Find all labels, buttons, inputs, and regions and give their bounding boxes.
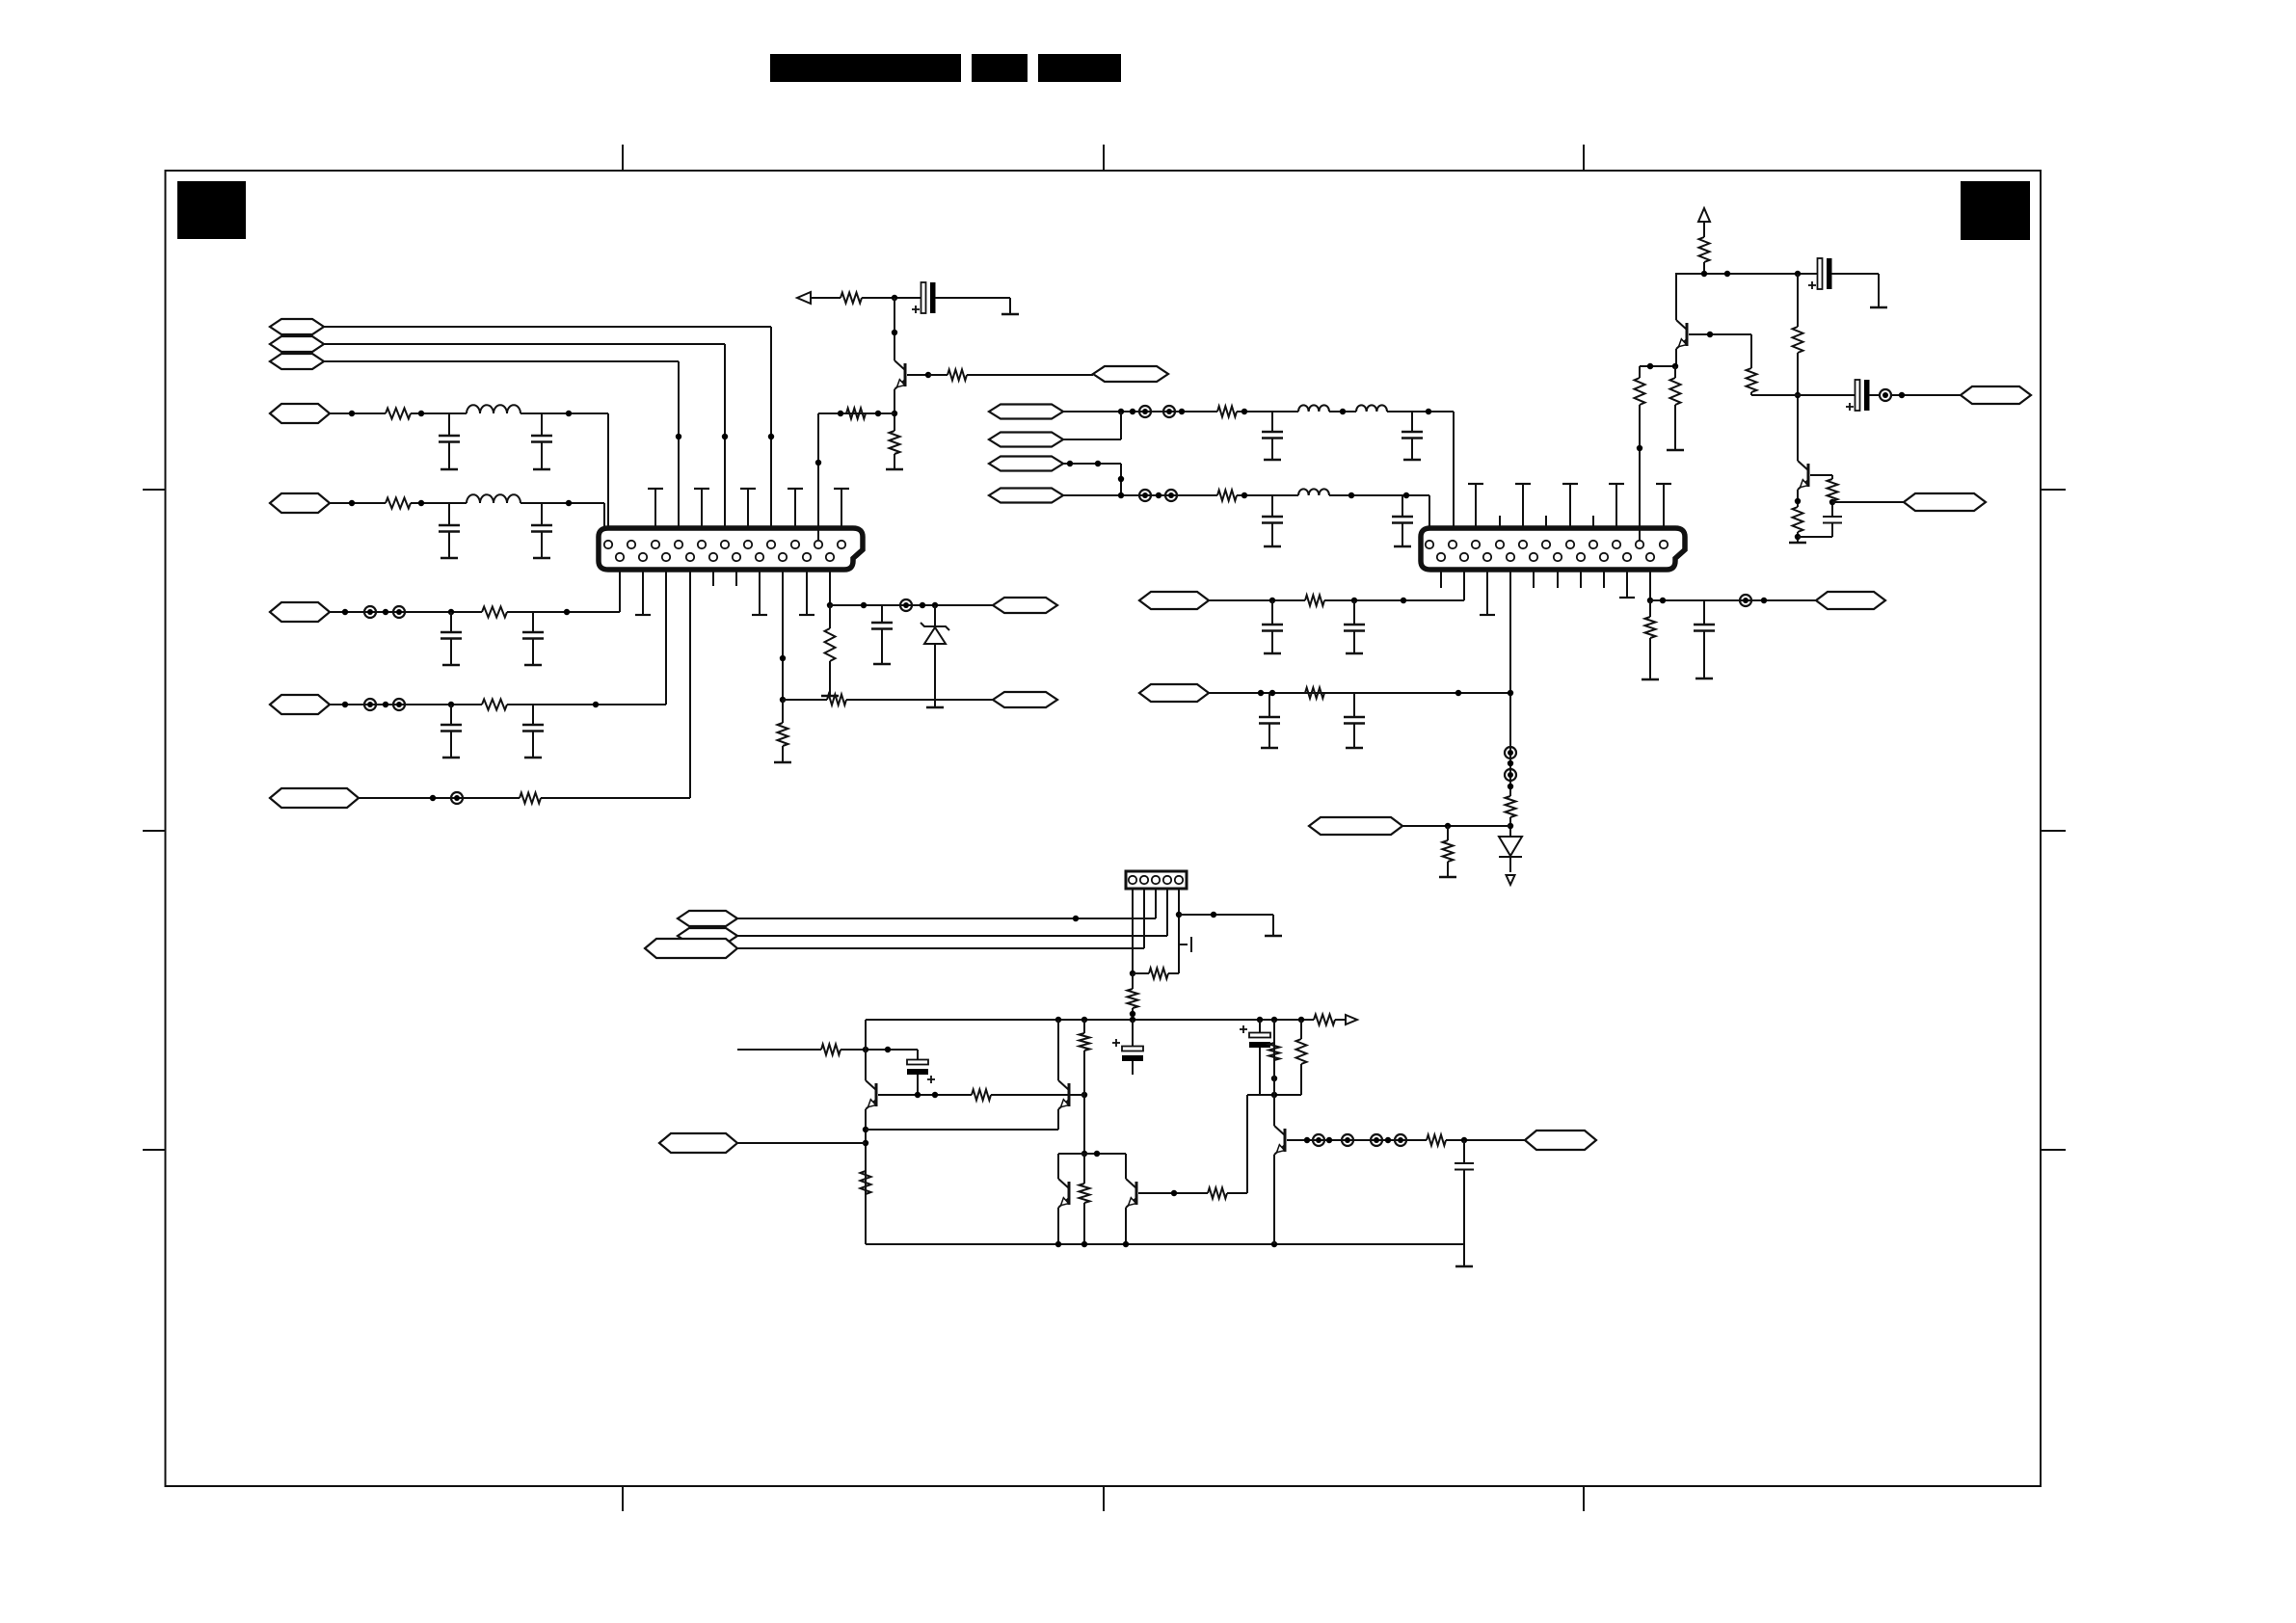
- arrow: [1346, 1015, 1357, 1024]
- stub: [1619, 570, 1635, 598]
- capacitor stub: [1468, 484, 1483, 528]
- capacitor C9: [871, 605, 893, 664]
- stub: [635, 570, 651, 615]
- wire: [1329, 492, 1429, 498]
- wire: [603, 503, 605, 531]
- ferrite bead FB7: [1139, 406, 1151, 417]
- wire: [811, 297, 841, 299]
- capacitor C22: [1823, 517, 1842, 537]
- net flag OUT2: [1961, 386, 2031, 404]
- capacitor C7: [441, 705, 462, 758]
- wire: [991, 1092, 1087, 1098]
- transistor Q6: [1058, 1179, 1069, 1208]
- wire: [1273, 1020, 1275, 1126]
- wire: [1138, 1190, 1208, 1196]
- resistor R22: [1635, 366, 1645, 405]
- net flag RF7: [1309, 817, 1402, 835]
- resistor R18: [1439, 826, 1456, 877]
- resistor R12: [948, 370, 967, 381]
- stub: [1580, 570, 1582, 588]
- wire: [928, 374, 1093, 376]
- wire: [1237, 409, 1298, 414]
- ferrite bead FB12: [1505, 769, 1516, 781]
- transistor Q4: [866, 1080, 876, 1109]
- wire: [1446, 1137, 1525, 1143]
- ferrite bead FB11: [1505, 747, 1516, 758]
- wire: [1166, 889, 1168, 936]
- wire: [1179, 912, 1273, 918]
- wire: [737, 935, 1167, 937]
- stub: [1592, 516, 1594, 528]
- wire: [1640, 363, 1678, 369]
- ferrite bead FB10: [1165, 490, 1177, 501]
- capacitor stub: [694, 489, 709, 528]
- wire: [1402, 823, 1510, 829]
- wire: [1453, 412, 1455, 540]
- capacitor C19: [1694, 600, 1715, 678]
- wire: [841, 1047, 918, 1052]
- wire: [1071, 1094, 1084, 1096]
- transistor Q2: [1676, 320, 1687, 349]
- connector J1: [599, 528, 863, 570]
- net flag BF1: [678, 911, 737, 926]
- wire: [1273, 1155, 1275, 1244]
- wire: [737, 947, 1144, 949]
- wire: [1155, 889, 1157, 918]
- stub: [1440, 570, 1442, 588]
- wire: [1176, 889, 1182, 973]
- wire: [1795, 353, 1801, 461]
- wire: [1689, 332, 1751, 337]
- wire: [689, 570, 691, 798]
- wire: [1130, 889, 1135, 976]
- wire: [507, 702, 666, 707]
- wire: [1751, 394, 1855, 396]
- wire: [1463, 570, 1465, 600]
- resistor R10: [886, 431, 903, 469]
- resistor R7: [774, 700, 791, 762]
- capacitor C6: [522, 612, 544, 665]
- capacitor C17: [1259, 693, 1280, 748]
- capacitor C4: [531, 503, 552, 558]
- capacitor C8: [522, 705, 544, 758]
- resistor R15: [1305, 596, 1324, 606]
- wire: [1795, 490, 1801, 507]
- net flag OUT_A: [993, 692, 1057, 707]
- inductor L2: [467, 494, 521, 503]
- polarized capacitor C26: [907, 1050, 935, 1095]
- stub: [1603, 570, 1605, 588]
- resistor R2: [386, 498, 411, 509]
- wire: [1081, 1051, 1087, 1157]
- wire: [1508, 570, 1513, 796]
- resistor R30: [1296, 1020, 1307, 1095]
- wire: [827, 570, 833, 608]
- wire: [1209, 598, 1305, 603]
- capacitor stub: [1656, 484, 1671, 528]
- resistor R8: [821, 605, 839, 696]
- ferrite bead FB4: [393, 699, 405, 710]
- wire: [722, 344, 728, 540]
- wire: [330, 500, 386, 506]
- resistor R20: [1699, 237, 1710, 262]
- resistor R5: [520, 793, 541, 804]
- stub: [1499, 516, 1501, 528]
- ferrite bead FB1: [364, 606, 376, 618]
- ferrite bead FB13: [1740, 595, 1751, 606]
- wire: [1125, 1208, 1127, 1244]
- wire: [521, 500, 604, 506]
- capacitor C13: [1262, 495, 1283, 546]
- net flag OUT_B: [993, 598, 1057, 613]
- wire: [1083, 1020, 1085, 1033]
- capacitor C18: [1344, 693, 1365, 748]
- wire: [1063, 409, 1217, 414]
- transistor Q3: [1798, 461, 1808, 490]
- transistor Q8: [1274, 1126, 1285, 1155]
- capacitor stub: [740, 489, 756, 528]
- wire: [1058, 1151, 1126, 1157]
- stub: [1480, 570, 1495, 615]
- wire: [737, 916, 1156, 921]
- net flag ROW1: [270, 404, 330, 423]
- capacitor stub: [1562, 484, 1578, 528]
- resistor R25: [1793, 507, 1803, 532]
- net flag OUT4: [1525, 1131, 1596, 1150]
- stub: [1533, 570, 1535, 588]
- ferrite bead FB6: [900, 599, 912, 611]
- wire: [862, 295, 921, 301]
- wire: [1287, 1137, 1427, 1143]
- wire: [607, 413, 609, 540]
- ferrite bead FB17: [1371, 1134, 1382, 1146]
- resistor R27: [1133, 969, 1179, 979]
- wire: [935, 297, 1010, 299]
- wire: [1063, 492, 1217, 498]
- resistor R13: [1217, 407, 1237, 417]
- resistor R11: [846, 409, 866, 419]
- capacitor C23: [1179, 937, 1191, 952]
- stub: [1557, 570, 1559, 588]
- wire: [768, 327, 774, 540]
- polarized capacitor C21: [1846, 380, 1870, 411]
- net flag IN3: [270, 354, 324, 369]
- capacitor stub: [648, 489, 663, 528]
- ground: [1001, 298, 1019, 314]
- wire: [1832, 501, 1904, 503]
- polarized capacitor C25: [1240, 1020, 1270, 1095]
- net flag OUT1: [1093, 366, 1168, 382]
- resistor R36: [1080, 1154, 1090, 1244]
- wire: [1335, 1019, 1346, 1021]
- wire: [1810, 475, 1832, 479]
- wire: [846, 699, 993, 701]
- wire: [541, 797, 690, 799]
- wire: [1057, 1208, 1059, 1244]
- wire: [1324, 598, 1464, 603]
- resistor R31: [1269, 1020, 1280, 1060]
- resistor R6: [827, 695, 846, 705]
- net flag RF1: [989, 405, 1063, 419]
- stub: [1545, 516, 1547, 528]
- capacitor stub: [834, 489, 849, 528]
- net flag RF2: [989, 433, 1063, 447]
- net flag RF8: [1816, 592, 1885, 609]
- net flag BF2: [678, 928, 737, 944]
- wire: [1750, 334, 1752, 368]
- connector J2: [1421, 528, 1685, 570]
- net flag ROW3: [270, 602, 330, 622]
- capacitor C2: [531, 413, 552, 469]
- ground: [1265, 915, 1282, 936]
- ferrite bead FB8: [1163, 406, 1175, 417]
- stub: [712, 570, 714, 586]
- wire: [1057, 1020, 1059, 1080]
- resistor R1: [386, 409, 411, 419]
- resistor R35: [1080, 1033, 1090, 1051]
- ground: [1789, 542, 1806, 544]
- ferrite bead FB3: [364, 699, 376, 710]
- resistor R29: [1314, 1015, 1335, 1025]
- wire: [783, 699, 827, 701]
- inductor L1: [467, 405, 521, 413]
- wire: [892, 389, 897, 431]
- net flag IN1: [270, 319, 324, 334]
- wire: [1829, 499, 1835, 517]
- wire: [1063, 412, 1121, 439]
- net flag ROW4: [270, 695, 330, 714]
- wire: [324, 360, 679, 362]
- wire: [1869, 392, 1961, 398]
- transistor Q1: [894, 360, 905, 389]
- wire: [507, 609, 620, 615]
- transistor Q5: [1058, 1080, 1069, 1109]
- power arrow: [1698, 208, 1710, 222]
- wire: [1703, 222, 1705, 237]
- inductor L5: [1298, 489, 1329, 495]
- ferrite bead FB5: [451, 792, 463, 804]
- capacitor stub: [1609, 484, 1624, 528]
- wire: [830, 602, 993, 608]
- wire: [1675, 274, 1677, 320]
- wire: [1798, 536, 1832, 538]
- net flag ROW2: [270, 493, 330, 513]
- ferrite bead FB9: [1139, 490, 1151, 501]
- wire: [665, 570, 667, 705]
- wire: [359, 795, 520, 801]
- net flag OUT3: [1904, 493, 1986, 511]
- resistor R32: [821, 1045, 841, 1055]
- transistor Q7: [1126, 1179, 1136, 1208]
- capacitor stub: [788, 489, 803, 528]
- net flag ROW5: [270, 788, 359, 808]
- wire: [1428, 495, 1430, 540]
- wire: [1797, 274, 1799, 327]
- ground: [1870, 274, 1887, 307]
- wire: [1795, 532, 1801, 542]
- resistor R38: [1427, 1135, 1446, 1146]
- resistor R16: [1305, 688, 1324, 699]
- wire: [1675, 349, 1677, 366]
- wire: [1703, 262, 1705, 274]
- wire: [1057, 1154, 1059, 1179]
- net flag RF3: [989, 457, 1063, 471]
- capacitor stub: [1515, 484, 1531, 528]
- wire: [863, 1109, 868, 1244]
- zener diode D1: [921, 605, 949, 707]
- wire: [676, 361, 681, 540]
- wire: [1237, 492, 1298, 498]
- resistor R3: [482, 607, 507, 618]
- wire: [324, 343, 725, 345]
- net flag RF4: [989, 489, 1063, 503]
- polarized capacitor C24: [1112, 1020, 1143, 1075]
- inductor L3: [1298, 405, 1329, 412]
- inductor L4: [1356, 405, 1387, 412]
- wire: [619, 570, 621, 612]
- resistor R23: [1667, 366, 1684, 450]
- wire: [1063, 461, 1121, 466]
- wire: [865, 1020, 867, 1080]
- wire: [1750, 392, 1752, 395]
- arrow: [1507, 875, 1515, 885]
- wire: [1271, 1060, 1277, 1126]
- ferrite bead FB16: [1342, 1134, 1353, 1146]
- wire: [1650, 598, 1816, 603]
- resistor R34: [972, 1090, 991, 1101]
- wire: [1057, 1109, 1059, 1130]
- wire: [866, 1129, 1058, 1131]
- net arrow: [797, 292, 811, 304]
- wire: [330, 609, 482, 615]
- wire: [1508, 817, 1513, 837]
- ferrite bead FB14: [1880, 389, 1891, 401]
- wire: [1637, 405, 1642, 540]
- capacitor C1: [439, 413, 460, 469]
- wire: [1143, 889, 1145, 948]
- wire: [1675, 271, 1818, 277]
- diode D2: [1499, 837, 1522, 872]
- wire: [1247, 1092, 1301, 1098]
- wire: [1329, 409, 1356, 414]
- wire: [330, 411, 386, 416]
- capacitor C5: [441, 612, 462, 665]
- wire: [1209, 690, 1510, 696]
- resistor R4: [482, 700, 507, 710]
- connector J3: [1126, 871, 1187, 889]
- wire: [411, 411, 467, 416]
- resistor R21: [1747, 368, 1757, 392]
- resistor R37: [1208, 1188, 1227, 1199]
- net flag BF4: [659, 1133, 737, 1153]
- wire: [1387, 409, 1454, 414]
- ground: [1455, 1244, 1473, 1266]
- wire: [1647, 570, 1653, 603]
- wire: [1125, 1154, 1127, 1179]
- rail wire: [866, 1241, 1464, 1247]
- stub: [799, 570, 814, 615]
- resistor R17: [1506, 796, 1516, 817]
- wire: [780, 570, 786, 703]
- resistor R14: [1217, 491, 1237, 501]
- wire: [1118, 464, 1124, 495]
- capacitor C15: [1262, 600, 1283, 653]
- wire: [324, 326, 771, 328]
- capacitor C16: [1344, 600, 1365, 653]
- wire: [907, 372, 931, 378]
- wire: [330, 702, 482, 707]
- net flag RF5: [1139, 592, 1209, 609]
- ferrite bead FB15: [1313, 1134, 1324, 1146]
- stub: [752, 570, 767, 615]
- wire: [737, 1142, 866, 1144]
- capacitor C12: [1402, 412, 1423, 460]
- resistor R33: [861, 1171, 871, 1194]
- wire: [866, 1017, 1314, 1023]
- capacitor C11: [1262, 412, 1283, 460]
- wire: [737, 1049, 821, 1051]
- stub: [735, 570, 737, 586]
- net flag IN2: [270, 336, 324, 352]
- wire: [878, 1092, 972, 1098]
- wire: [1227, 1095, 1247, 1193]
- wire: [521, 411, 608, 416]
- resistor R9: [841, 293, 862, 304]
- capacitor C3: [439, 503, 460, 558]
- ferrite bead FB2: [393, 606, 405, 618]
- resistor R24: [1793, 327, 1803, 353]
- capacitor C14: [1392, 495, 1413, 546]
- wire: [815, 413, 821, 540]
- resistor R26: [1828, 479, 1838, 501]
- wire: [818, 411, 894, 416]
- wire: [892, 298, 897, 360]
- resistor R28: [1128, 973, 1138, 1020]
- net flag RF6: [1139, 684, 1209, 702]
- resistor R19: [1642, 600, 1659, 679]
- wire: [411, 500, 467, 506]
- wire: [1831, 273, 1879, 275]
- capacitor C27: [1455, 1140, 1474, 1244]
- net flag BF3: [645, 939, 737, 958]
- polarized capacitor C20: [1808, 258, 1832, 289]
- ferrite bead FB18: [1395, 1134, 1406, 1146]
- polarized capacitor C10: [912, 282, 936, 313]
